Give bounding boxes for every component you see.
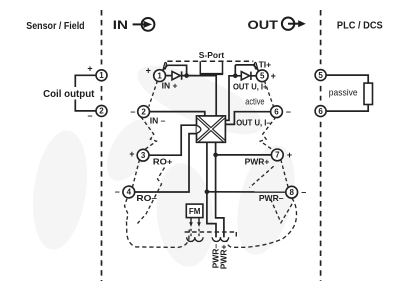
svg-text:+: + (87, 64, 92, 74)
svg-text:Coil output: Coil output (43, 88, 95, 100)
svg-text:OUT U, I+: OUT U, I+ (233, 81, 268, 91)
svg-text:5: 5 (260, 72, 265, 81)
svg-text:5: 5 (318, 71, 323, 80)
svg-text:TI+: TI+ (259, 60, 272, 70)
svg-text:PWR+: PWR+ (245, 156, 270, 166)
svg-text:FM: FM (189, 207, 201, 216)
svg-text:+: + (287, 150, 292, 160)
svg-text:RO+: RO+ (153, 157, 173, 167)
svg-text:–: – (130, 107, 135, 117)
svg-text:8: 8 (289, 188, 294, 197)
svg-text:IN +: IN + (162, 81, 178, 91)
svg-text:–: – (115, 187, 120, 197)
svg-text:IN: IN (113, 18, 128, 32)
svg-text:6: 6 (274, 107, 279, 116)
svg-text:–: – (87, 110, 92, 120)
svg-text:–: – (286, 107, 291, 117)
svg-text:2: 2 (99, 107, 104, 116)
svg-text:RO–: RO– (136, 193, 157, 203)
svg-text:IN –: IN – (150, 115, 166, 125)
svg-text:–: – (301, 187, 306, 197)
svg-text:1: 1 (157, 71, 162, 80)
svg-text:PLC / DCS: PLC / DCS (337, 20, 383, 32)
svg-text:+: + (129, 149, 134, 159)
svg-text:S-Port: S-Port (199, 50, 225, 60)
svg-text:1: 1 (99, 71, 104, 80)
svg-text:OUT: OUT (248, 18, 279, 32)
svg-text:passive: passive (329, 87, 358, 98)
svg-text:2: 2 (141, 107, 146, 116)
svg-text:7: 7 (275, 151, 280, 160)
svg-text:Sensor / Field: Sensor / Field (26, 20, 84, 32)
svg-text:PWR+: PWR+ (218, 244, 228, 269)
svg-text:4: 4 (127, 188, 132, 197)
svg-text:+: + (146, 65, 151, 75)
svg-text:OUT U, I–: OUT U, I– (236, 117, 271, 127)
svg-text:active: active (245, 97, 264, 108)
svg-text:+: + (271, 71, 276, 81)
svg-text:6: 6 (318, 107, 323, 116)
svg-text:3: 3 (141, 151, 146, 160)
